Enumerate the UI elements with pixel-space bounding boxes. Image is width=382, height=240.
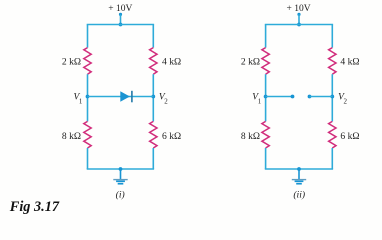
ground bar 2 (i) — [116, 180, 125, 182]
wire: top rail (i) — [87, 24, 154, 26]
ground bar 1 (i) — [113, 179, 127, 181]
node V1 (ii) — [264, 95, 268, 99]
node: open end left (ii) — [291, 95, 295, 99]
diode D anode triangle (i) — [120, 91, 130, 102]
wire: left branch lower (ii) — [265, 148, 267, 169]
node: +10V terminal dot (i) — [119, 13, 122, 16]
wire: open stub from V1 (ii) — [266, 96, 293, 98]
svg-text:8 kΩ: 8 kΩ — [62, 131, 81, 142]
wire: open stub to V2 (ii) — [310, 96, 333, 98]
resistor 8 kΩ (i) — [84, 121, 91, 148]
wire: right branch lower (ii) — [331, 148, 333, 169]
resistor 2 kΩ (ii) — [262, 48, 269, 75]
resistor 8 kΩ (ii) — [262, 121, 269, 148]
svg-text:+ 10V: + 10V — [108, 4, 132, 14]
wire: left branch middle (ii) — [265, 74, 267, 121]
svg-text:4 kΩ: 4 kΩ — [162, 56, 181, 67]
wire: left branch upper (i) — [87, 25, 89, 48]
svg-text:1: 1 — [79, 98, 83, 106]
wire: right branch upper (i) — [152, 25, 154, 48]
diode D cathode bar (i) — [131, 91, 133, 103]
node: ground junction (ii) — [297, 167, 301, 171]
node: top-rail junction (ii) — [297, 23, 301, 27]
wire: right branch middle (ii) — [331, 74, 333, 121]
wire: left branch upper (ii) — [265, 25, 267, 48]
svg-text:1: 1 — [258, 98, 262, 106]
ground bar 3 (ii) — [296, 183, 302, 185]
svg-text:8 kΩ: 8 kΩ — [241, 131, 260, 142]
wire: left branch middle (i) — [87, 74, 89, 121]
resistor 6 kΩ (ii) — [329, 121, 336, 148]
wire: +10V feed (ii) — [298, 14, 300, 24]
wire: right branch middle (i) — [152, 74, 154, 121]
ground stem (ii) — [298, 169, 300, 180]
svg-text:(i): (i) — [116, 189, 125, 200]
node V2 (i) — [151, 95, 155, 99]
resistor 6 kΩ (i) — [150, 121, 157, 148]
wire: +10V feed (i) — [120, 14, 122, 24]
resistor 2 kΩ (i) — [84, 48, 91, 75]
svg-text:2: 2 — [164, 98, 168, 106]
svg-text:(ii): (ii) — [293, 189, 305, 200]
wire: bottom rail (i) — [87, 168, 154, 170]
wire: right branch lower (i) — [152, 148, 154, 169]
node V1 (i) — [86, 95, 90, 99]
svg-text:+ 10V: + 10V — [287, 4, 311, 14]
resistor 4 kΩ (ii) — [329, 48, 336, 75]
wire: left branch lower (i) — [87, 148, 89, 169]
ground stem (i) — [120, 169, 122, 180]
svg-text:2: 2 — [344, 98, 348, 106]
ground bar 3 (i) — [118, 183, 124, 185]
ground bar 2 (ii) — [295, 180, 304, 182]
wire: right branch upper (ii) — [331, 25, 333, 48]
svg-text:Fig 3.17: Fig 3.17 — [9, 199, 60, 215]
svg-text:2 kΩ: 2 kΩ — [241, 56, 260, 67]
svg-text:4 kΩ: 4 kΩ — [340, 56, 359, 67]
node: top-rail junction (i) — [119, 23, 123, 27]
wire: bottom rail (ii) — [265, 168, 333, 170]
node: ground junction (i) — [119, 167, 123, 171]
resistor 4 kΩ (i) — [150, 48, 157, 75]
svg-text:6 kΩ: 6 kΩ — [162, 131, 181, 142]
svg-text:2 kΩ: 2 kΩ — [62, 56, 81, 67]
svg-text:6 kΩ: 6 kΩ — [340, 131, 359, 142]
node V2 (ii) — [330, 95, 334, 99]
node: open end right (ii) — [308, 95, 312, 99]
node: +10V terminal dot (ii) — [297, 13, 300, 16]
wire: middle link V1-V2 (i) — [88, 96, 154, 98]
ground bar 1 (ii) — [292, 179, 306, 181]
wire: top rail (ii) — [265, 24, 333, 26]
